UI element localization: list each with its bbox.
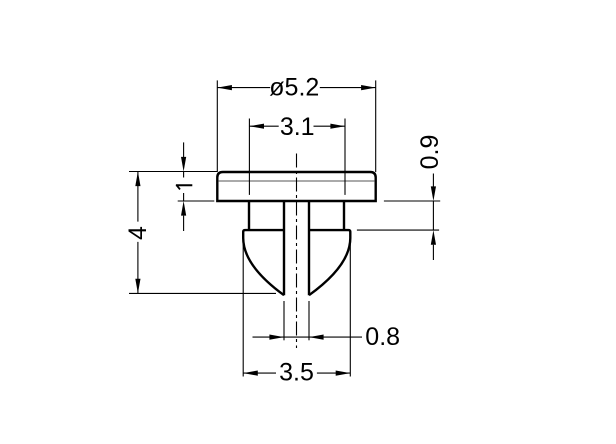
dimension 0.8: right tail to label [309,336,362,338]
shank right edge [343,201,345,230]
dimension 0.8: right extension line [308,301,310,340]
dimension 1: lower tail [183,216,185,231]
dimension phi5.2: right extension line [375,80,377,172]
svg-text:3.1: 3.1 [280,113,315,141]
dimension 4: bottom arrow (down) [135,279,140,294]
dimension 3.1: dimension line [249,125,345,127]
dimension 3.5: left arrow [243,371,258,376]
dimension 0.8: right arrow (left-pointing) [309,335,324,340]
dimension 3.5: right extension line [349,241,351,377]
svg-text:0.8: 0.8 [365,323,400,351]
dimension 3.1: right arrow [330,124,345,129]
dimension 1: upper tail [183,142,185,157]
dimension 0.9: segment between extension lines [432,201,434,230]
left barb (leg) [243,230,284,295]
vertical centerline [296,154,298,349]
dimension 3.5: right arrow [336,371,351,376]
dimension 0.9: extension line at cap bottom [384,200,440,202]
cap chamfer line [218,180,375,182]
svg-text:3.5: 3.5 [279,358,314,386]
dimension 1: upper arrow (down) [181,157,186,172]
dimension phi5.2: dimension line [217,87,375,89]
svg-text:4: 4 [124,226,152,240]
dimension 0.8: segment between extension lines [284,336,309,338]
dimension 1: short extension line at cap bottom [178,200,215,202]
dimension phi5.2: left arrow [217,85,232,90]
svg-text:ø5.2: ø5.2 [269,74,319,102]
dimension 3.1: left extension line [248,119,250,195]
cap (flange) outline [217,172,375,201]
dimension 0.8: left arrow (right-pointing) [269,335,284,340]
dimension 1: value label (drawn) [176,184,192,186]
dimension 3.1: left arrow [249,124,264,129]
dimension 4: extension line at barb tip level [129,292,276,294]
dimension 0.8: left extension line [283,301,285,340]
dimension 4: top arrow (up) [135,172,140,187]
dimension 1: lower arrow (up) [181,201,186,216]
dimension 3.1: right extension line [344,119,346,195]
right barb (leg) [309,230,350,295]
dimension 0.9: upper arrow (down) [431,186,436,201]
svg-text:0.9: 0.9 [416,135,444,170]
slot left edge / left leg inner edge [283,201,285,295]
dimension 1: stub between arrows [183,172,185,202]
shank left edge [248,201,250,230]
dimension phi5.2: right arrow [361,85,376,90]
dimension 0.9: upper tail [432,174,434,187]
dimension phi5.2: left extension line [216,80,218,172]
dimension 3.5: left extension line [242,241,244,377]
shared extension line at cap top (dims 4 and 1) [129,171,217,173]
dimension 0.9: extension line at barb top [357,229,439,231]
dimension 4: dimension line [137,172,139,294]
dimension 3.5: dimension line [243,372,350,374]
dimension 0.9: lower arrow (up) [431,230,436,245]
dimension 0.9: lower tail [432,245,434,260]
dimension 0.8: left tail [253,336,285,338]
slot right edge / right leg inner edge [308,201,310,295]
